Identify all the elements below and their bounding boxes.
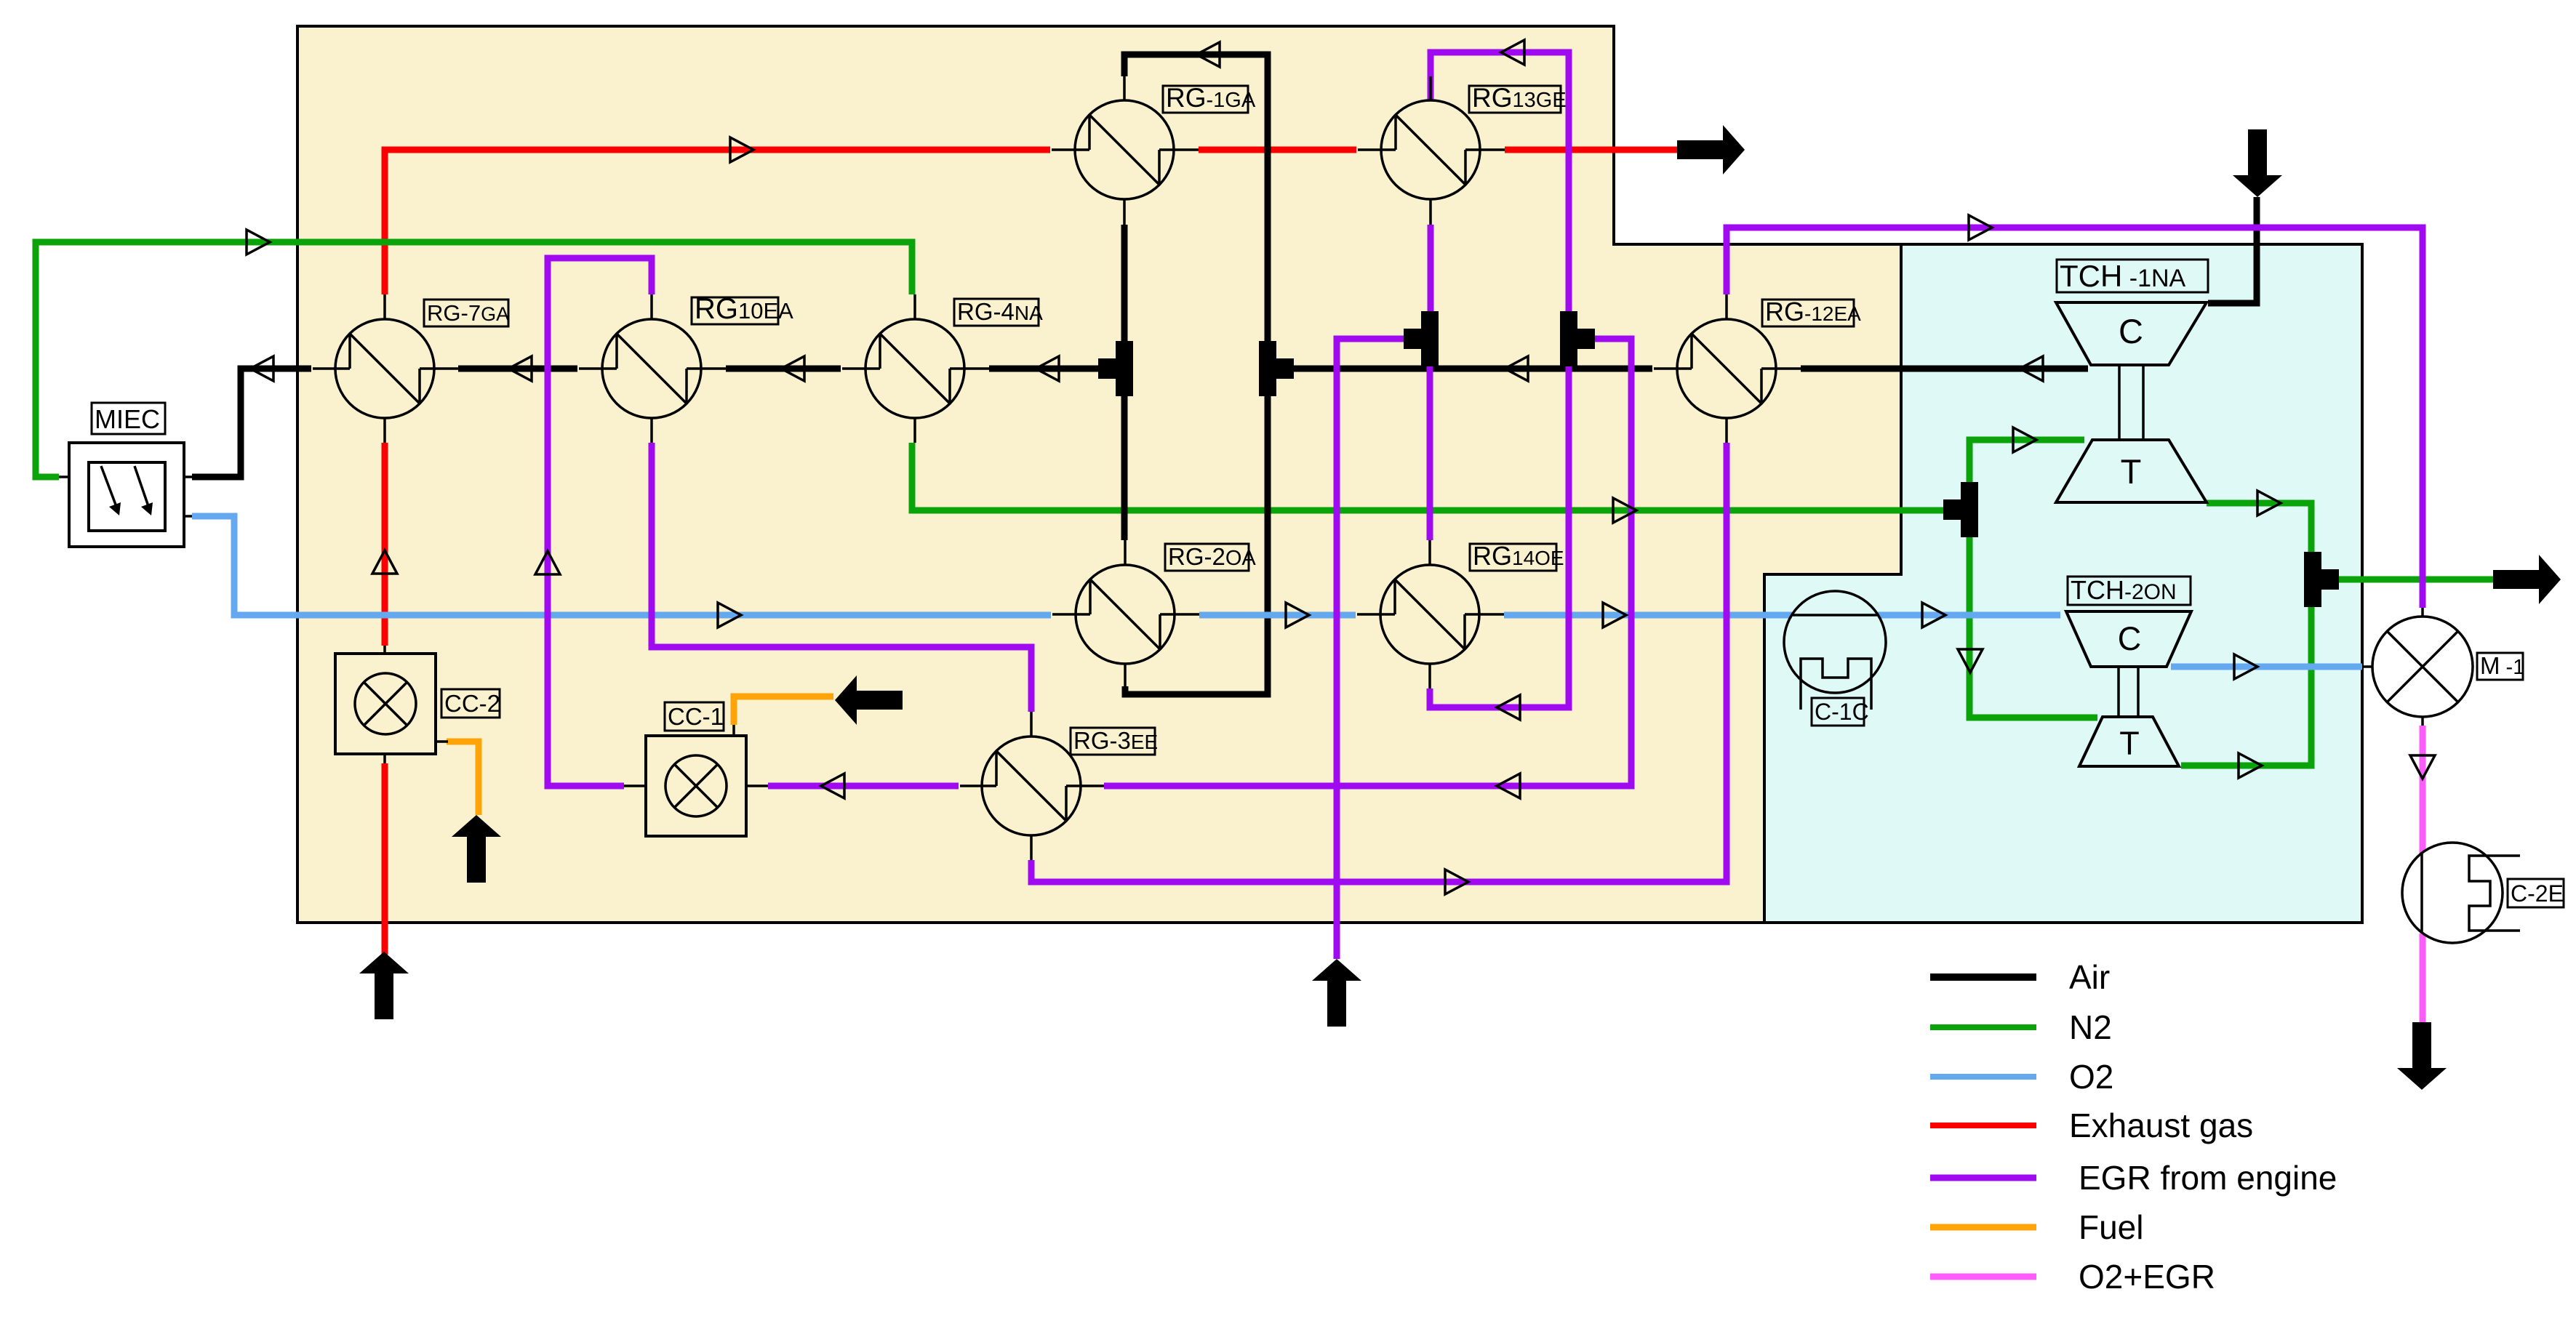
svg-text:EGR from engine: EGR from engine: [2079, 1159, 2337, 1197]
svg-text:RG-3EE: RG-3EE: [1073, 727, 1158, 754]
svg-text:N2: N2: [2069, 1008, 2112, 1046]
svg-text:O2: O2: [2069, 1058, 2113, 1096]
svg-text:RG-2OA: RG-2OA: [1168, 543, 1256, 570]
svg-text:Air: Air: [2069, 958, 2110, 996]
svg-text:CC-1: CC-1: [668, 703, 724, 730]
svg-text:TCH -1NA: TCH -1NA: [2060, 259, 2186, 293]
svg-text:TCH-2ON: TCH-2ON: [2071, 575, 2177, 605]
svg-text:CC-2: CC-2: [444, 690, 500, 717]
svg-text:RG-7GA: RG-7GA: [427, 300, 509, 326]
svg-text:RG-4NA: RG-4NA: [957, 298, 1043, 325]
svg-text:Fuel: Fuel: [2079, 1208, 2143, 1246]
svg-text:C-1C: C-1C: [1815, 699, 1869, 725]
svg-text:RG10EA: RG10EA: [695, 293, 793, 325]
svg-text:C: C: [2118, 620, 2142, 657]
svg-text:T: T: [2121, 452, 2142, 491]
svg-text:M -1: M -1: [2480, 652, 2524, 679]
svg-text:O2+EGR: O2+EGR: [2079, 1258, 2215, 1296]
svg-text:MIEC: MIEC: [95, 404, 160, 434]
svg-text:T: T: [2119, 725, 2140, 762]
svg-text:Exhaust gas: Exhaust gas: [2069, 1107, 2253, 1144]
svg-text:C: C: [2119, 312, 2143, 350]
svg-text:C-2E: C-2E: [2511, 880, 2564, 907]
